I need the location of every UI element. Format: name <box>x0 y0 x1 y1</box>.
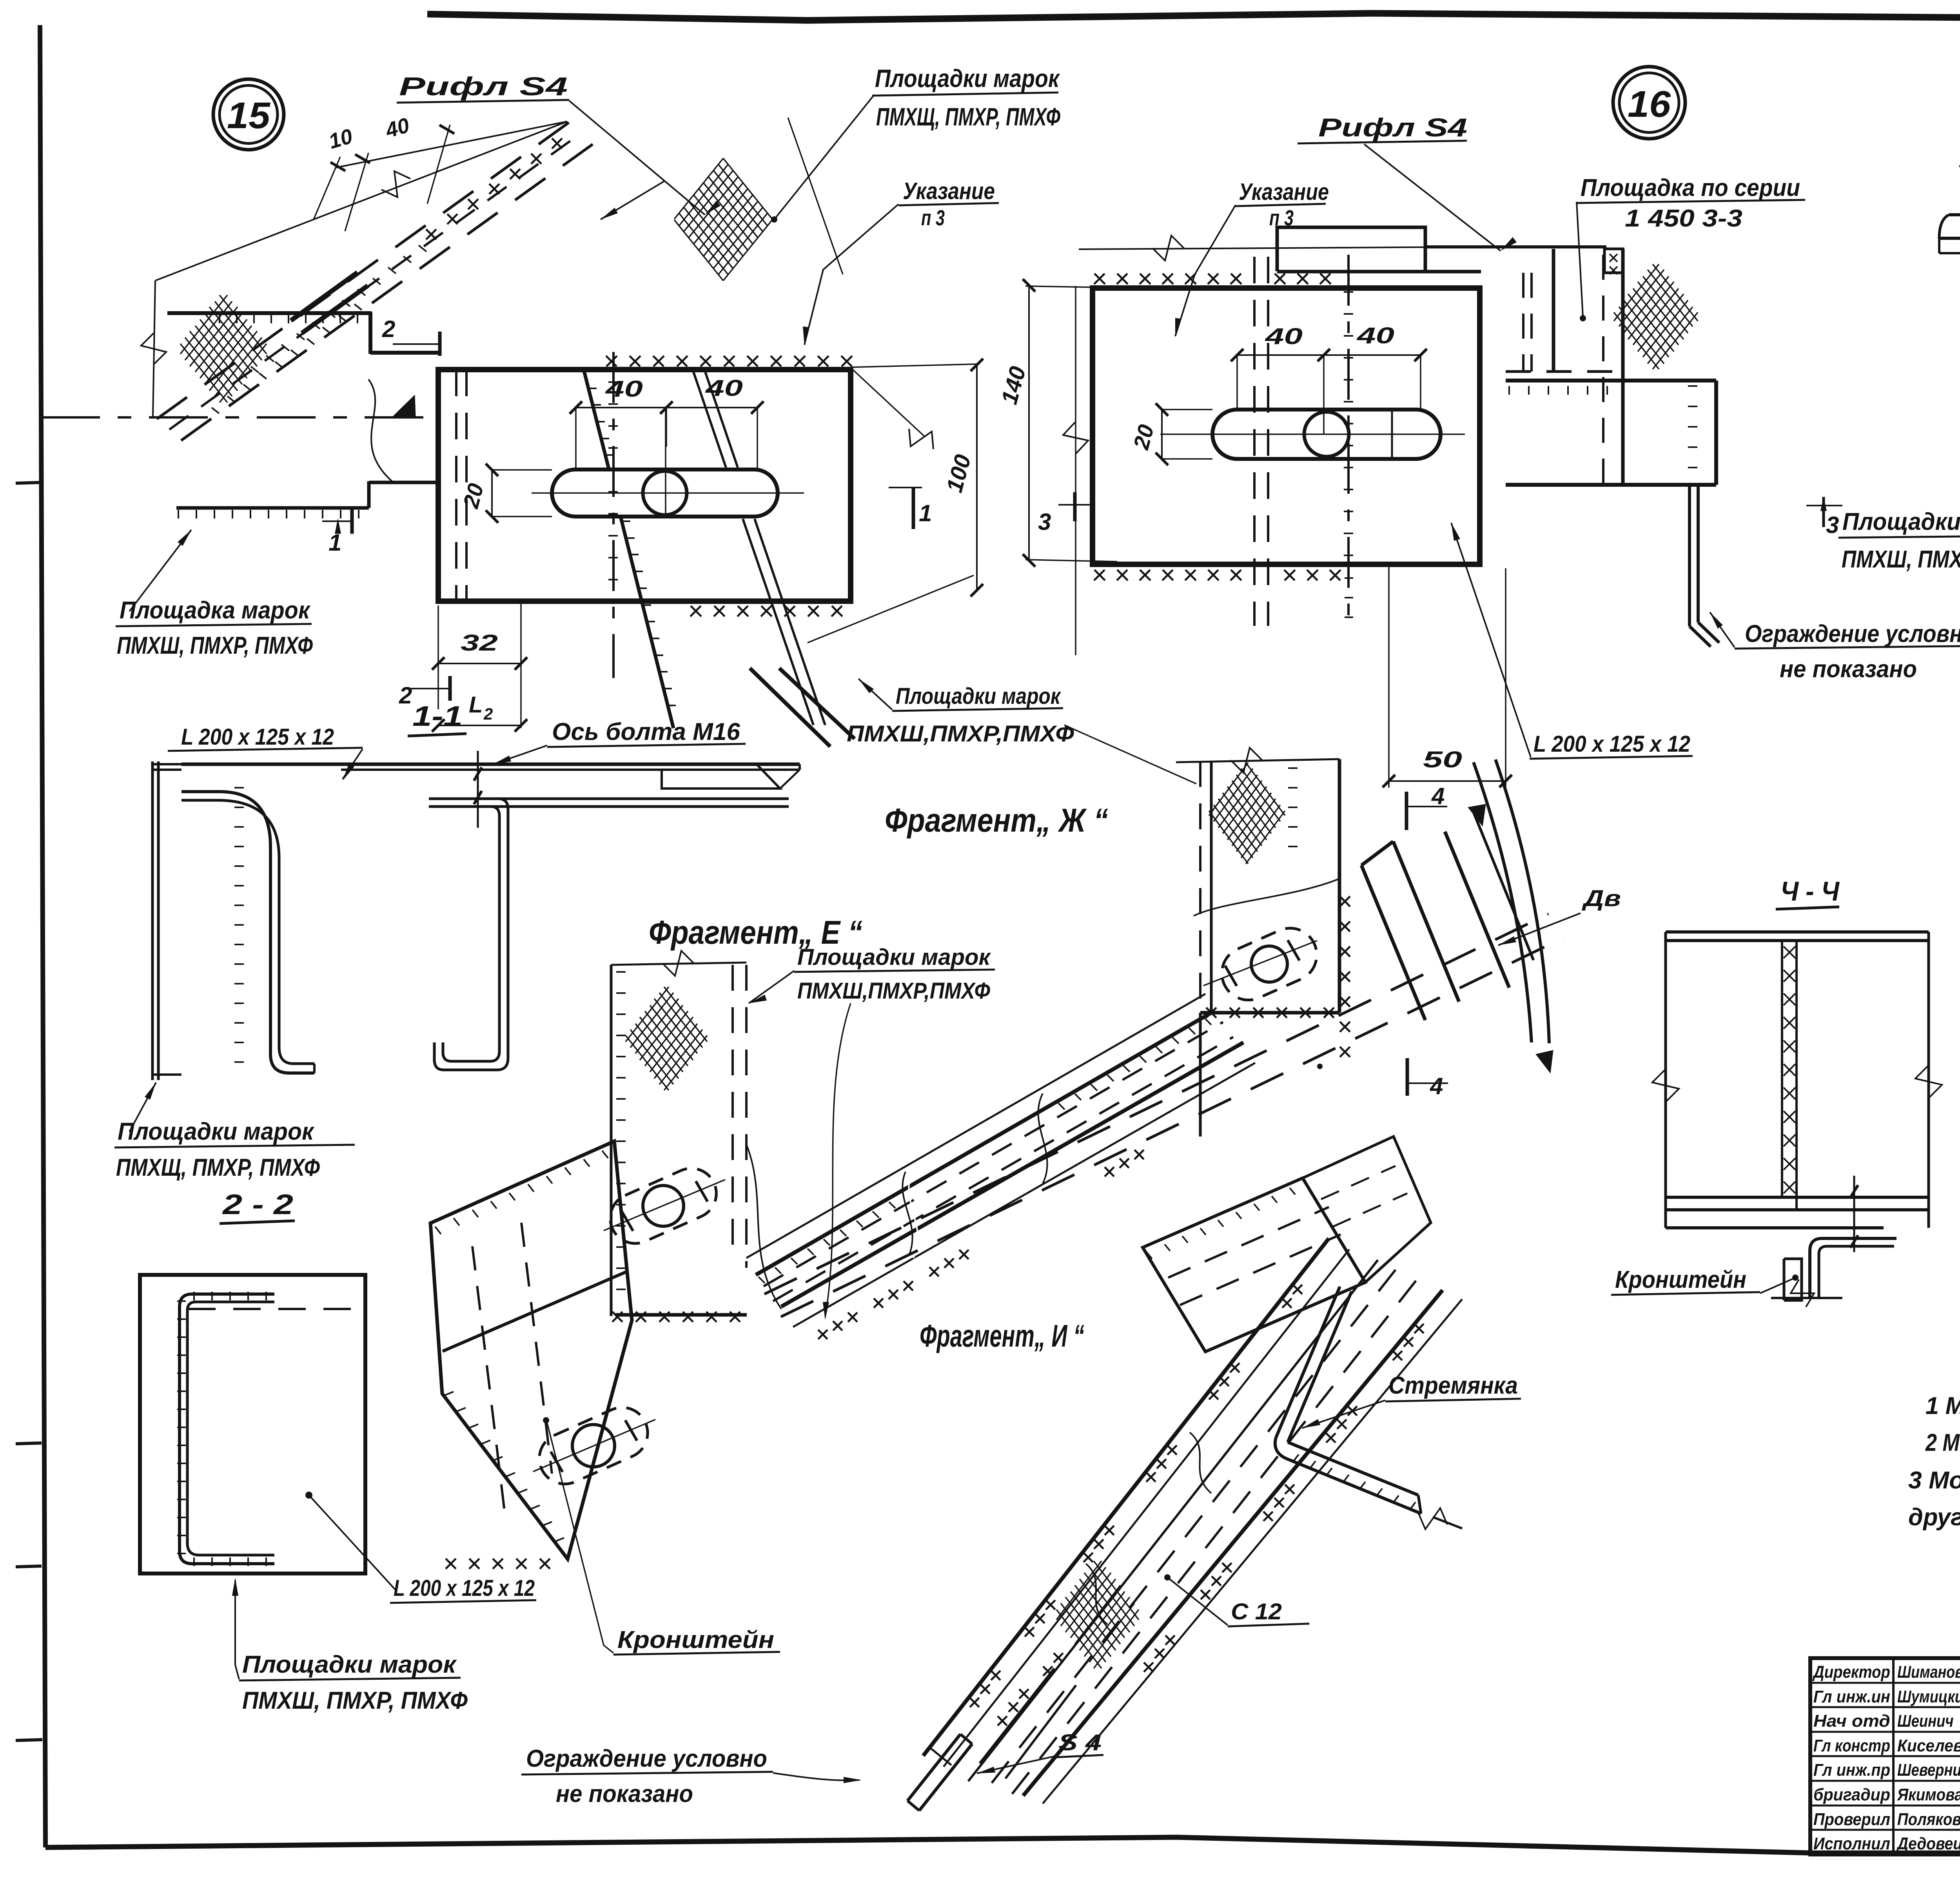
left margin tick <box>16 482 41 483</box>
svg-text:Рифл S4: Рифл S4 <box>399 72 568 101</box>
node16 upper thin outline <box>1079 247 1537 249</box>
svg-text:Директор: Директор <box>1812 1662 1890 1682</box>
1-1 angle outline outer <box>181 792 314 1073</box>
node16 right hatch <box>1614 264 1698 369</box>
1-1 plank right nose <box>799 764 801 770</box>
node15 ticks under E1 <box>220 315 358 323</box>
svg-text:ПМХШ,ПМХР,ПМХФ: ПМХШ,ПМХР,ПМХФ <box>797 978 991 1004</box>
4-4 center grout band <box>1781 941 1783 1197</box>
svg-text:Рифл S4: Рифл S4 <box>1318 113 1467 142</box>
stringer band line1 <box>746 994 1205 1258</box>
svg-text:Шеверницкий: Шеверницкий <box>1897 1760 1960 1780</box>
node15 dim 40 40 <box>576 407 757 408</box>
2-2 channel weld ticks <box>177 1301 186 1554</box>
stringer xmark clusters <box>818 1312 857 1339</box>
node15 cut bar thick A <box>291 272 358 321</box>
svg-text:S 4: S 4 <box>1058 1730 1102 1755</box>
svg-text:Площадки марок: Площадки марок <box>242 1651 457 1678</box>
stremyanka L leg <box>1275 1438 1421 1514</box>
sheet left border <box>40 25 45 1847</box>
svg-text:ПМХЩ, ПМХР, ПМХФ: ПМХЩ, ПМХР, ПМХФ <box>876 103 1060 131</box>
svg-text:Якимова: Якимова <box>1897 1785 1960 1804</box>
node15 dim 100 <box>976 365 978 590</box>
svg-text:16: 16 <box>1628 83 1671 125</box>
node15 diagonal x-row <box>426 138 562 239</box>
2-2 arrow up leader <box>234 1580 236 1665</box>
node16 main plate <box>1093 288 1480 564</box>
curved beam arcs <box>1474 762 1532 1042</box>
node15 lower plate ticks <box>178 510 359 518</box>
fragment Zh xmark col <box>1340 896 1350 1057</box>
fragment E upper slot <box>602 1160 724 1251</box>
svg-text:2: 2 <box>483 705 493 723</box>
1-1 channel outer <box>429 799 508 1070</box>
stringer band line2 thick <box>756 1011 1215 1275</box>
left margin tick <box>16 1566 42 1567</box>
node15 weld triangle <box>393 395 416 416</box>
node16 dim 50 <box>1388 566 1390 788</box>
svg-text:2 Маркировка фрагментов Е,: 2 Маркировка фрагментов Е, И, Ж - на лис… <box>1925 1429 1960 1456</box>
leader rifl s4 n16 <box>1364 144 1501 251</box>
svg-text:2: 2 <box>382 316 395 342</box>
node15 hatch patch right <box>674 158 772 281</box>
svg-text:ПМХШ,ПМХР,ПМХФ: ПМХШ,ПМХР,ПМХФ <box>847 721 1074 747</box>
svg-text:Нач отд: Нач отд <box>1813 1711 1890 1731</box>
node15 section mark 1 right <box>889 487 922 488</box>
node15 slot centerline <box>532 492 804 494</box>
node16 dim 20 <box>1161 410 1163 459</box>
node 16 bubble <box>1613 67 1685 139</box>
svg-text:Ограждение условно: Ограждение условно <box>526 1745 767 1772</box>
fragment Zh band right edge <box>1338 759 1341 1013</box>
svg-text:Шумицкий: Шумицкий <box>1897 1687 1960 1706</box>
2-2 plate <box>140 1275 365 1573</box>
node15 lower plate bottom edge <box>176 506 369 510</box>
node15 platform left cap <box>153 281 155 416</box>
node15 lower step horizontal <box>369 481 438 484</box>
node15 band1 ticks <box>584 372 613 455</box>
fragment E band dashed right pair <box>731 965 734 1254</box>
fragment I connecting plate Q2 <box>1303 1137 1431 1282</box>
2-2 channel dash line <box>188 1308 358 1310</box>
svg-text:4: 4 <box>1430 1073 1443 1099</box>
leader po serii <box>1577 202 1583 317</box>
fragment Zh band top edge <box>1176 759 1339 762</box>
svg-text:Указание: Указание <box>903 178 995 204</box>
svg-text:С 12: С 12 <box>1231 1599 1282 1624</box>
fragment I band edge R1 <box>923 1238 1329 1756</box>
fragment E hatch <box>626 987 707 1090</box>
1-1 left plate verticals <box>151 761 154 1080</box>
fragment E wavy cut <box>746 1144 781 1309</box>
svg-text:40: 40 <box>605 376 643 402</box>
svg-text:Кронштейн: Кронштейн <box>1615 1266 1746 1293</box>
svg-text:1 Маркировка узлов 15, 16: 1 Маркировка узлов 15, 16 на листе 14, 1… <box>1926 1392 1960 1419</box>
4-4 side edges <box>1664 932 1667 1228</box>
fragment I hatch <box>1056 1561 1139 1668</box>
svg-text:32: 32 <box>461 630 498 656</box>
fragment I wavy cuts <box>1190 1432 1211 1493</box>
3-3 plank left nose <box>1939 215 1949 238</box>
fragment E lower slot <box>531 1399 656 1492</box>
svg-text:ПМХШ, ПМХР, ПМХФ: ПМХШ, ПМХР, ПМХФ <box>242 1687 468 1714</box>
leader ukazanie n15 <box>804 204 898 345</box>
node15 slot with circle <box>552 469 778 517</box>
svg-text:Киселев: Киселев <box>1897 1736 1960 1755</box>
node15 lower step vertical <box>367 481 371 508</box>
svg-text:ПМХШ, ПМХР, ПМХФ: ПМХШ, ПМХР, ПМХФ <box>117 632 313 659</box>
fragment Zh oval slot dashed <box>1213 920 1325 1009</box>
fragment E bracket dashed lines <box>472 1246 506 1521</box>
plate P1 steep band <box>1361 865 1425 1020</box>
fragment E band top edge <box>611 963 746 965</box>
fragment E xmark row bottom <box>612 1312 740 1322</box>
stringer band middle dashed pair <box>764 1022 1223 1286</box>
svg-text:Площадки марок: Площадки марок <box>1842 508 1960 535</box>
svg-text:2 - 2: 2 - 2 <box>222 1189 293 1220</box>
fragment E bracket plate <box>430 1141 632 1559</box>
node15 dim 10 40 upper-left <box>335 121 567 168</box>
node15 diagonal weld tick line <box>251 245 426 373</box>
fragment Zh hatch <box>1209 763 1285 864</box>
central long wavy leader <box>825 1003 851 1317</box>
sheet bottom border <box>45 1837 1960 1854</box>
1-1 angle outline inner <box>181 800 314 1064</box>
svg-text:Площадки марок: Площадки марок <box>896 683 1061 709</box>
svg-text:Указание: Указание <box>1239 179 1329 205</box>
left margin tick <box>16 1740 42 1740</box>
fragment I xmark clusters right <box>1393 1324 1424 1360</box>
svg-text:Площадки марок: Площадки марок <box>797 944 991 970</box>
svg-text:ПМХШ, ПМХР, ПМХФ: ПМХШ, ПМХР, ПМХФ <box>1842 546 1960 573</box>
svg-text:Дв: Дв <box>1581 886 1621 911</box>
fragment Zh band left solid <box>1210 761 1213 1013</box>
svg-text:Ч - Ч: Ч - Ч <box>1780 876 1840 906</box>
node15 main plate <box>438 370 851 601</box>
2-2 leader dot <box>305 1492 312 1499</box>
svg-text:40: 40 <box>1357 323 1394 348</box>
node15 diagonal band1 lower seg <box>621 518 673 728</box>
leader ploshchadki top <box>774 95 874 219</box>
node 15 bubble <box>213 79 284 150</box>
4-4 bent bracket inner <box>1819 1246 1894 1297</box>
node15 dim L2 <box>438 725 521 726</box>
svg-text:ПМХЩ, ПМХР, ПМХФ: ПМХЩ, ПМХР, ПМХФ <box>116 1154 320 1181</box>
node16 right member foot <box>1690 626 1711 647</box>
svg-text:L 200 x 125 x 12: L 200 x 125 x 12 <box>181 724 334 750</box>
fragment E bottom thick edge <box>615 1313 747 1317</box>
svg-text:Гл инж.пр: Гл инж.пр <box>1813 1760 1890 1780</box>
node15 diagonal band2 thin pair <box>693 370 726 468</box>
node15 diagonal beam dashed edge B <box>181 144 593 440</box>
fragment E band tick col <box>616 972 626 1289</box>
stremyanka ticks <box>1294 1454 1416 1509</box>
node15 axis dash-dot line <box>41 416 438 419</box>
title block outline <box>1810 1658 1960 1854</box>
node16 right member horizontals <box>1506 370 1623 373</box>
svg-text:п 3: п 3 <box>921 205 945 230</box>
1-1 angle top surface <box>181 763 368 766</box>
node16 slot inner vertical <box>1391 410 1393 459</box>
stringer band line4 <box>793 1063 1255 1327</box>
fragment I connecting plate Q1 <box>1143 1178 1365 1352</box>
node15 band2 below-plate thick <box>750 668 830 747</box>
svg-text:Площадки марок: Площадки марок <box>875 64 1060 92</box>
fragment I band edge R3 <box>1023 1290 1443 1796</box>
4-4 ground line <box>1771 1297 1842 1299</box>
node16 dim 40 40 <box>1237 354 1421 356</box>
node15 dim 32 <box>438 663 521 664</box>
svg-text:другой конец крепить на б: другой конец крепить на болтах М16 <box>1908 1504 1960 1531</box>
4-4 top double lines <box>1666 930 1929 934</box>
fragment I dashed centers <box>988 1270 1396 1788</box>
fragment E bracket fold line <box>443 1272 626 1351</box>
fragment I tip converging edges <box>980 1669 1054 1764</box>
leader Rifl S4 <box>569 101 705 215</box>
fragment I bottom tip bar S4 <box>907 1734 960 1801</box>
node15 section mark 1 left <box>322 520 354 522</box>
fragment I band edge R4 <box>1043 1299 1462 1804</box>
1-1 bolt axis <box>477 751 479 828</box>
svg-text:1: 1 <box>919 500 932 526</box>
3-3 plank top <box>1949 213 1960 216</box>
node16 upper channel <box>1277 227 1425 271</box>
node16 x-marks bottom <box>1094 570 1241 580</box>
crossing leader line <box>788 118 843 274</box>
node15 diagonal band1 upper seg <box>584 370 609 469</box>
svg-text:Площадка по серии: Площадка по серии <box>1581 174 1800 201</box>
node16 ext line with break <box>1075 286 1076 655</box>
stringer tick groups <box>759 1202 895 1283</box>
svg-text:1-1: 1-1 <box>412 701 463 732</box>
svg-text:40: 40 <box>1265 324 1303 349</box>
curved beam arrows <box>1468 804 1486 826</box>
3-3 plank mid <box>1939 237 1960 240</box>
svg-text:Фрагмент„ И “: Фрагмент„ И “ <box>920 1318 1084 1353</box>
node16 seam ticks <box>1344 292 1353 555</box>
stringer break waves <box>909 1168 918 1258</box>
node15 wavy cut line <box>368 379 392 481</box>
node16 upper thick edge <box>1277 270 1481 274</box>
node16 axis line <box>1347 255 1350 627</box>
4-4 bent bracket outer <box>1810 1238 1896 1297</box>
svg-text:Площадка марок: Площадка марок <box>120 597 310 624</box>
leader ukazanie n16 <box>1175 205 1236 336</box>
svg-text:Площадки марок: Площадки марок <box>118 1118 314 1145</box>
node15 plate axis line <box>612 352 615 678</box>
fragment I xmark clusters left <box>1282 1285 1302 1308</box>
svg-text:2: 2 <box>399 682 412 709</box>
4-4 bottom lines <box>1666 1196 1929 1199</box>
node15 step edge E3 <box>370 351 439 355</box>
fragment I band edge R2 <box>944 1249 1349 1767</box>
svg-text:L: L <box>469 692 483 718</box>
4-4 bolt axis <box>1853 1176 1855 1252</box>
svg-text:15: 15 <box>227 95 270 136</box>
node15 extra dashed centre line <box>169 133 581 430</box>
svg-text:Ось болта М16: Ось болта М16 <box>552 718 740 745</box>
node15 plate hidden dashed pair <box>455 370 457 601</box>
svg-text:Стремянка: Стремянка <box>1388 1372 1518 1399</box>
svg-text:Кронштейн: Кронштейн <box>617 1626 774 1653</box>
left margin tick <box>16 1443 42 1444</box>
node16 slot centerline <box>1160 433 1465 435</box>
2-2 channel inner <box>187 1302 274 1555</box>
svg-text:3: 3 <box>1826 512 1839 538</box>
svg-text:Гл инж.ин: Гл инж.ин <box>1813 1687 1890 1706</box>
node16 right member lower legs <box>1688 485 1691 626</box>
svg-text:не показано: не показано <box>556 1780 693 1807</box>
svg-text:3 Монтажная сварка только с: 3 Монтажная сварка только с одного конца… <box>1908 1467 1960 1494</box>
4-4 small plate <box>1784 1259 1802 1300</box>
node15 cut bar thick B <box>302 286 368 333</box>
svg-text:Дедовец: Дедовец <box>1896 1834 1960 1853</box>
fragment E band left edge <box>610 965 613 1316</box>
plate P2 steep band <box>1445 832 1509 988</box>
svg-text:4: 4 <box>1431 783 1445 809</box>
stremyanka long bar <box>1276 1287 1340 1438</box>
svg-text:Фрагмент„ Ж “: Фрагмент„ Ж “ <box>885 802 1108 839</box>
sheet top border <box>427 13 1960 20</box>
svg-text:3: 3 <box>1038 509 1051 535</box>
svg-text:Шимановский: Шимановский <box>1897 1662 1960 1682</box>
node16 hidden dashed pair <box>1253 257 1256 626</box>
2-2 channel top leg <box>180 1294 274 1564</box>
svg-text:Гл констр: Гл констр <box>1813 1736 1890 1755</box>
fragment I band inner line <box>968 1260 1378 1781</box>
node15 diagonal beam dashed edge A <box>157 122 569 419</box>
1-1 weld tick column <box>234 788 244 1062</box>
fragment Zh band left dashed edge <box>1199 761 1201 1013</box>
fragment Zh bottom edge xmarks <box>1200 1011 1339 1015</box>
node16 x-marks top <box>1094 274 1241 284</box>
fragment Zh inner tick line <box>1288 768 1298 847</box>
svg-text:не показано: не показано <box>1780 656 1917 683</box>
svg-text:Поляковский: Поляковский <box>1897 1810 1960 1829</box>
svg-text:Исполнил: Исполнил <box>1813 1834 1890 1853</box>
svg-text:50: 50 <box>1423 747 1462 772</box>
1-1 channel inner <box>429 807 499 1061</box>
svg-text:бригадир: бригадир <box>1813 1785 1890 1804</box>
1-1 left plate caps <box>152 763 181 765</box>
title block verticals left part <box>1892 1658 1895 1854</box>
stremyanka break <box>1418 1508 1447 1529</box>
svg-text:Проверил: Проверил <box>1813 1810 1890 1829</box>
svg-text:Ограждение условно: Ограждение условно <box>1745 620 1960 647</box>
title block row lines <box>1810 1682 1960 1684</box>
node15 plate x-marks bottom <box>690 606 842 616</box>
node16 dim 140 <box>1028 285 1030 560</box>
long hidden dash lines D1 <box>764 914 1548 1294</box>
stringer band line3 thick <box>781 1042 1243 1307</box>
node16 right member verticals <box>1522 273 1524 372</box>
3-3 plank lower <box>1939 252 1960 254</box>
node16 upper right line <box>1425 245 1606 248</box>
Q1 dashed interior <box>1168 1207 1329 1278</box>
node16 slot with circle <box>1212 410 1441 459</box>
node15 hatch patch left <box>180 295 267 402</box>
svg-text:Шеинич: Шеинич <box>1897 1711 1954 1731</box>
node15 plate x-marks top <box>606 356 852 366</box>
svg-text:1 450 3-3: 1 450 3-3 <box>1625 205 1742 232</box>
svg-text:L 200 x 125 x 12: L 200 x 125 x 12 <box>394 1575 535 1601</box>
svg-text:40: 40 <box>705 375 743 401</box>
fragment Zh lower panel dashes <box>1199 1013 1202 1137</box>
node15 step edge E1 <box>167 311 372 315</box>
fragment Zh cloud line <box>1194 879 1339 916</box>
node15 step edge E2 <box>368 312 372 354</box>
node16 right member weld ticks <box>1688 386 1697 468</box>
1-1 plank top lines <box>368 763 800 766</box>
node15 slot vertical centerline <box>665 406 666 517</box>
fragment E bracket ticks <box>435 1151 608 1234</box>
node16 right member L-bracket rect <box>1604 249 1623 273</box>
node15 platform upper outline <box>155 121 567 281</box>
node15 plate seam ticks <box>608 382 618 580</box>
node15 dim 20 <box>491 470 493 517</box>
svg-text:L 200 x 125 x 12: L 200 x 125 x 12 <box>1534 731 1690 757</box>
1-1 plank lower pair <box>429 798 789 800</box>
Q1 tick row <box>1147 1188 1295 1259</box>
